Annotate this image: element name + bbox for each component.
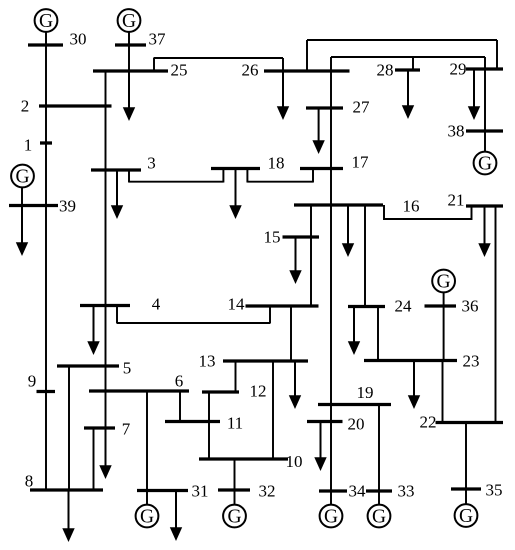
svg-text:15: 15 <box>264 228 281 247</box>
svg-text:G: G <box>122 11 136 32</box>
svg-text:19: 19 <box>357 383 374 402</box>
svg-text:G: G <box>15 166 29 187</box>
svg-text:35: 35 <box>486 481 503 500</box>
svg-text:27: 27 <box>353 98 371 117</box>
svg-text:28: 28 <box>377 61 394 80</box>
svg-text:24: 24 <box>395 297 413 316</box>
svg-text:23: 23 <box>463 352 480 371</box>
svg-text:2: 2 <box>21 97 30 116</box>
svg-text:34: 34 <box>349 482 367 501</box>
svg-text:8: 8 <box>25 472 34 491</box>
svg-text:32: 32 <box>259 482 276 501</box>
svg-text:14: 14 <box>228 295 246 314</box>
svg-text:29: 29 <box>450 60 467 79</box>
svg-text:11: 11 <box>227 414 243 433</box>
svg-text:37: 37 <box>149 30 167 49</box>
svg-text:7: 7 <box>122 420 131 439</box>
svg-text:3: 3 <box>147 154 156 173</box>
svg-text:9: 9 <box>28 372 37 391</box>
svg-text:1: 1 <box>24 136 33 155</box>
svg-text:30: 30 <box>70 30 87 49</box>
svg-text:G: G <box>39 11 53 32</box>
svg-text:6: 6 <box>175 372 184 391</box>
svg-text:39: 39 <box>59 197 76 216</box>
svg-text:22: 22 <box>420 413 437 432</box>
svg-text:33: 33 <box>398 482 415 501</box>
svg-text:G: G <box>227 506 241 527</box>
svg-text:G: G <box>459 506 473 527</box>
svg-text:25: 25 <box>171 61 188 80</box>
svg-text:G: G <box>372 506 386 527</box>
svg-text:38: 38 <box>448 122 465 141</box>
svg-text:10: 10 <box>286 452 303 471</box>
svg-text:26: 26 <box>242 61 259 80</box>
svg-text:5: 5 <box>123 359 132 378</box>
svg-text:17: 17 <box>352 153 370 172</box>
svg-text:G: G <box>324 506 338 527</box>
svg-text:G: G <box>140 506 154 527</box>
svg-text:31: 31 <box>192 482 209 501</box>
svg-text:13: 13 <box>199 352 216 371</box>
svg-text:12: 12 <box>250 382 267 401</box>
svg-text:16: 16 <box>403 197 420 216</box>
svg-text:G: G <box>437 271 451 292</box>
svg-text:18: 18 <box>268 154 285 173</box>
svg-text:21: 21 <box>448 191 465 210</box>
svg-text:36: 36 <box>462 297 479 316</box>
svg-text:20: 20 <box>348 415 365 434</box>
svg-text:4: 4 <box>152 295 161 314</box>
svg-text:G: G <box>478 153 492 174</box>
